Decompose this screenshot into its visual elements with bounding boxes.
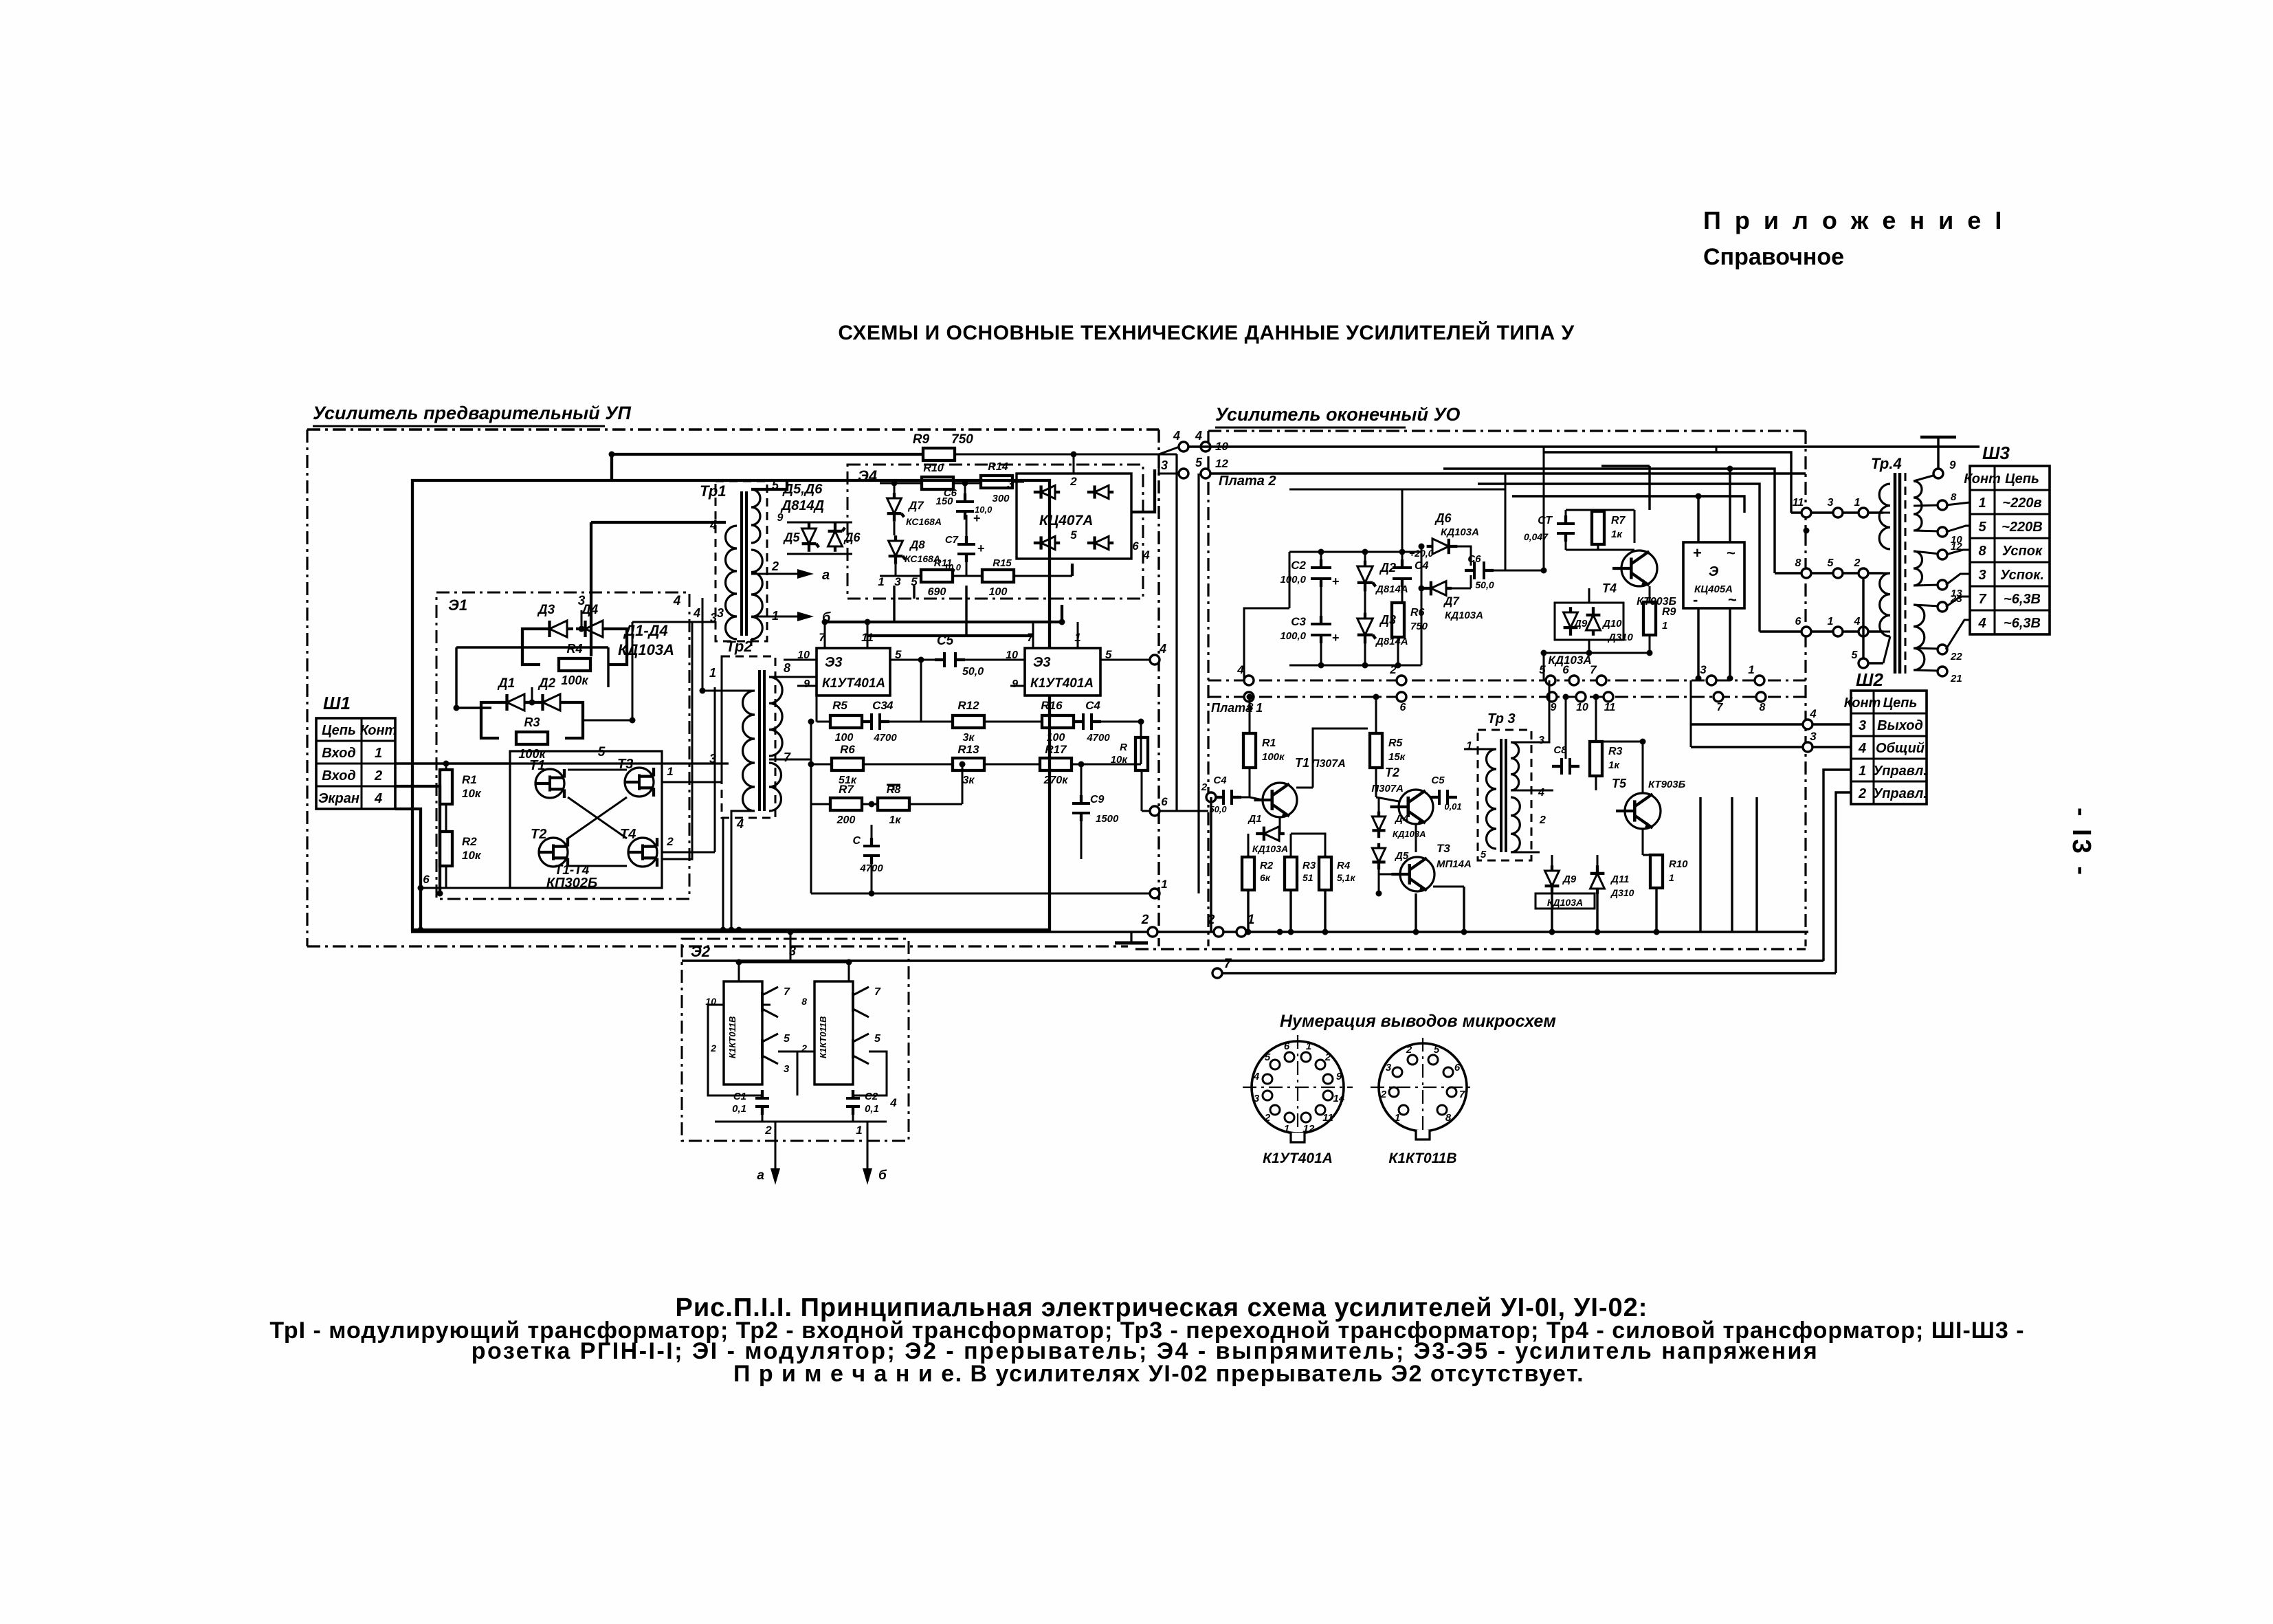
node 2 on bus xyxy=(1148,927,1157,937)
capacitor СТ xyxy=(1557,522,1575,525)
wires СТ R7 xyxy=(1565,510,1567,520)
svg-text:Цепь: Цепь xyxy=(1883,696,1918,711)
transistor T2 xyxy=(539,838,568,867)
svg-text:2: 2 xyxy=(1264,1112,1271,1124)
svg-text:7: 7 xyxy=(1978,592,1986,607)
svg-text:3: 3 xyxy=(1810,730,1817,743)
diode Д5 xyxy=(802,529,817,544)
capacitor C5 xyxy=(943,652,946,667)
svg-text:Д6: Д6 xyxy=(1434,511,1452,525)
svg-text:Д9: Д9 xyxy=(1573,618,1588,630)
svg-text:Э3: Э3 xyxy=(825,655,843,670)
box УП dash-dot outline xyxy=(307,428,1159,430)
capacitor C8 xyxy=(1560,758,1563,775)
wires right cluster xyxy=(1595,697,1597,742)
wire to Тр1 secondary top xyxy=(751,481,787,489)
svg-text:К1УТ401А: К1УТ401А xyxy=(1263,1150,1333,1166)
svg-text:3: 3 xyxy=(1007,478,1014,491)
svg-text:R1: R1 xyxy=(462,773,477,786)
svg-text:2: 2 xyxy=(1858,786,1866,801)
svg-text:2: 2 xyxy=(1380,1089,1387,1100)
IC Э3 left К1УТ401А xyxy=(817,648,890,696)
wires Э2 bottom xyxy=(762,1111,764,1122)
transistor T1 xyxy=(535,769,564,798)
svg-text:5: 5 xyxy=(1265,1052,1271,1063)
svg-text:Плата 1: Плата 1 xyxy=(1211,701,1263,715)
resistor R9 (УО) xyxy=(1643,602,1656,635)
svg-text:7: 7 xyxy=(1717,702,1724,713)
svg-text:1к: 1к xyxy=(1611,529,1623,540)
resistor R18 vertical right xyxy=(1135,737,1148,770)
svg-text:Д4: Д4 xyxy=(580,603,599,617)
svg-text:300: 300 xyxy=(992,493,1010,504)
svg-text:КД103А: КД103А xyxy=(1252,843,1288,854)
svg-text:690: 690 xyxy=(928,586,946,598)
svg-text:4: 4 xyxy=(1173,429,1180,443)
svg-text:Д1: Д1 xyxy=(497,676,515,691)
diode Д1 (Плата1) xyxy=(1264,827,1279,841)
resistor R2 (УП) xyxy=(440,832,452,866)
svg-text:2: 2 xyxy=(1539,814,1546,826)
svg-text:R14: R14 xyxy=(988,461,1008,473)
wire Д1-Д2 frame xyxy=(481,702,499,738)
pinout circle К1УТ401А xyxy=(1252,1041,1344,1133)
node 2b on bus xyxy=(1214,927,1223,937)
wire bus top 12 xyxy=(1210,472,1806,474)
svg-text:5: 5 xyxy=(1070,529,1077,542)
capacitor C4 lower-left xyxy=(1222,790,1225,805)
svg-text:R17: R17 xyxy=(1045,743,1067,756)
svg-text:4: 4 xyxy=(1159,642,1166,656)
svg-text:Нумерация выводов микросхем: Нумерация выводов микросхем xyxy=(1280,1012,1556,1031)
resistor R5 (Плата1) xyxy=(1370,733,1382,768)
rectifier Э КЦ405А xyxy=(1683,542,1744,608)
svg-text:Цепь: Цепь xyxy=(322,723,356,738)
svg-text:~6,3В: ~6,3В xyxy=(2004,592,2041,607)
svg-text:3: 3 xyxy=(1828,497,1834,509)
svg-text:R: R xyxy=(1120,742,1127,753)
svg-text:Э2: Э2 xyxy=(691,943,711,960)
svg-text:Общий: Общий xyxy=(1876,741,1925,756)
transistor T5 xyxy=(1625,793,1661,829)
svg-text:6: 6 xyxy=(1795,616,1801,627)
IC К1КТ011В right xyxy=(814,981,853,1084)
svg-text:3: 3 xyxy=(1538,735,1544,746)
svg-text:СТ: СТ xyxy=(1538,515,1553,526)
wires Тр2 xyxy=(769,676,817,678)
resistor R16 xyxy=(1042,715,1074,728)
svg-text:270к: 270к xyxy=(1043,775,1069,786)
svg-text:R5: R5 xyxy=(1388,737,1404,749)
wire: bus y1424 xyxy=(1217,972,1836,974)
zener Д3 (УО) xyxy=(1357,619,1373,635)
svg-text:К1КТ011В: К1КТ011В xyxy=(727,1016,738,1058)
svg-text:С7: С7 xyxy=(945,534,959,546)
junction dots xyxy=(609,452,615,458)
svg-text:3: 3 xyxy=(784,1063,790,1075)
svg-text:2: 2 xyxy=(1324,1052,1331,1063)
svg-text:Успок.: Успок. xyxy=(2000,568,2044,583)
svg-text:8: 8 xyxy=(1795,557,1801,569)
svg-text:1: 1 xyxy=(1284,1123,1289,1135)
resistor R12 xyxy=(953,715,984,728)
transistor T2 (Плата1) xyxy=(1399,790,1433,824)
svg-text:5: 5 xyxy=(1434,1044,1440,1056)
svg-text:3: 3 xyxy=(1859,718,1866,733)
svg-text:4: 4 xyxy=(1854,616,1861,627)
resistor R10 xyxy=(922,477,953,489)
svg-text:R4: R4 xyxy=(1337,860,1351,871)
svg-text:КД103А: КД103А xyxy=(1393,829,1426,839)
svg-text:100,0: 100,0 xyxy=(1280,630,1306,642)
svg-text:4: 4 xyxy=(673,594,681,608)
svg-text:2: 2 xyxy=(764,1124,772,1137)
svg-text:МП14А: МП14А xyxy=(1437,858,1472,870)
resistor R7 (УО) xyxy=(1592,511,1604,544)
svg-text:1: 1 xyxy=(1748,663,1754,676)
svg-text:Д310: Д310 xyxy=(1610,887,1634,898)
svg-text:C3: C3 xyxy=(1291,615,1306,628)
svg-text:~: ~ xyxy=(1727,544,1736,561)
svg-text:7: 7 xyxy=(1459,1089,1465,1100)
wire elbow B to tap row 2 xyxy=(1443,469,1775,573)
resistor R17 xyxy=(1040,758,1072,770)
svg-text:1500: 1500 xyxy=(1096,813,1119,825)
svg-text:10к: 10к xyxy=(462,787,482,800)
svg-text:R8: R8 xyxy=(887,784,901,796)
svg-text:Цепь: Цепь xyxy=(2005,471,2039,487)
svg-text:КД103А: КД103А xyxy=(1441,526,1479,538)
svg-text:C9: C9 xyxy=(1090,794,1105,805)
resistor R11 xyxy=(921,570,953,582)
svg-text:4: 4 xyxy=(709,518,717,532)
svg-text:1: 1 xyxy=(1859,764,1866,779)
svg-text:9: 9 xyxy=(1949,458,1956,471)
svg-text:10к: 10к xyxy=(462,849,482,862)
svg-text:СХЕМЫ И ОСНОВНЫЕ ТЕХНИЧЕСКИЕ Д: СХЕМЫ И ОСНОВНЫЕ ТЕХНИЧЕСКИЕ ДАННЫЕ УСИЛ… xyxy=(838,321,1574,344)
svg-text:100,0: 100,0 xyxy=(1280,574,1306,586)
svg-text:а: а xyxy=(822,568,830,583)
svg-text:Управл.: Управл. xyxy=(1873,786,1927,801)
svg-text:8: 8 xyxy=(1760,702,1766,713)
svg-text:C3: C3 xyxy=(872,699,887,712)
diodes Д4 Д5 (Плата1) xyxy=(1372,816,1385,830)
svg-text:C2: C2 xyxy=(865,1091,878,1102)
svg-text:Э1: Э1 xyxy=(448,597,467,614)
svg-text:R3: R3 xyxy=(524,715,540,729)
resistor R1 (УП) xyxy=(440,770,452,804)
diode Д2 xyxy=(543,694,561,711)
svg-text:3: 3 xyxy=(1161,458,1168,472)
bottom dash-dot line (УП/УО bottom edge) xyxy=(307,945,1128,947)
svg-text:1: 1 xyxy=(878,575,884,588)
svg-text:Ш3: Ш3 xyxy=(1982,443,2010,463)
wire bundle verticals xyxy=(1716,447,1718,452)
svg-text:50,0: 50,0 xyxy=(1475,579,1494,590)
wire: Ш1 Вход1 to circuit xyxy=(395,762,509,764)
svg-text:100: 100 xyxy=(989,586,1008,598)
svg-text:0,047: 0,047 xyxy=(1524,531,1549,542)
capacitor C3 xyxy=(870,713,873,730)
svg-text:1: 1 xyxy=(1669,872,1674,883)
wires Ш2 down to buses xyxy=(1823,770,1851,961)
node 7 on bus xyxy=(1212,968,1222,978)
rectifier КЦ407А box xyxy=(1017,474,1131,559)
svg-text:R15: R15 xyxy=(993,557,1012,569)
svg-text:3: 3 xyxy=(894,575,901,588)
resistor R5 xyxy=(830,715,862,728)
svg-text:1: 1 xyxy=(375,746,382,761)
wire elbow C to tap row 3 xyxy=(1478,484,1760,632)
svg-text:6к: 6к xyxy=(1260,872,1271,883)
svg-text:100: 100 xyxy=(1047,732,1065,744)
svg-text:C2: C2 xyxy=(1291,559,1306,572)
svg-text:КД103А: КД103А xyxy=(1548,654,1591,667)
svg-text:Ш1: Ш1 xyxy=(323,693,351,713)
resistors R2 R3 R4 (Плата1) xyxy=(1242,857,1254,890)
wire elbow D xyxy=(1512,496,1744,513)
capacitor С7 xyxy=(957,543,975,546)
svg-text:9: 9 xyxy=(1012,678,1018,690)
svg-text:Д1: Д1 xyxy=(1247,813,1261,825)
svg-text:Т2: Т2 xyxy=(1385,766,1399,779)
svg-text:6: 6 xyxy=(1132,540,1139,553)
svg-text:11: 11 xyxy=(1604,702,1616,713)
svg-text:Д11: Д11 xyxy=(1610,874,1629,885)
svg-text:8: 8 xyxy=(1978,544,1986,559)
arrow output b xyxy=(751,616,797,618)
svg-text:0,1: 0,1 xyxy=(865,1103,879,1115)
diode Д3 xyxy=(550,621,568,637)
svg-text:200: 200 xyxy=(836,814,856,826)
svg-text:5: 5 xyxy=(1195,456,1203,469)
svg-text:~: ~ xyxy=(1728,591,1737,608)
wire Д3Д4 node up xyxy=(581,610,583,629)
wire: bus y1400 xyxy=(682,959,1823,961)
svg-text:Д3: Д3 xyxy=(1379,613,1396,627)
capacitor C2 (Э2) xyxy=(846,1097,860,1100)
svg-text:Т2: Т2 xyxy=(531,827,546,842)
svg-text:R4: R4 xyxy=(566,642,582,656)
svg-text:1к: 1к xyxy=(889,814,901,826)
svg-text:4: 4 xyxy=(1253,1071,1260,1082)
wires КЦ407А xyxy=(1017,481,1024,483)
svg-text:Э4: Э4 xyxy=(858,467,877,485)
svg-text:КТ903Б: КТ903Б xyxy=(1648,779,1686,790)
diode Д6 xyxy=(828,531,843,546)
svg-text:R1: R1 xyxy=(1262,737,1276,749)
wire vertical terminal 4 down xyxy=(1175,454,1177,811)
svg-text:Д7: Д7 xyxy=(907,499,924,512)
resistor R3b (Плата1) xyxy=(1590,742,1602,776)
svg-text:Справочное: Справочное xyxy=(1703,244,1844,270)
wires T2 T3 xyxy=(1375,768,1377,797)
svg-text:R2: R2 xyxy=(1260,860,1274,871)
node 6 and wires right side УП xyxy=(1150,806,1160,816)
svg-text:10: 10 xyxy=(1576,702,1588,713)
svg-text:Конт: Конт xyxy=(1964,471,2001,487)
terminal 4-4 top xyxy=(1179,442,1188,452)
svg-text:R16: R16 xyxy=(1041,699,1063,712)
svg-text:9: 9 xyxy=(777,512,784,524)
svg-text:Д4: Д4 xyxy=(1394,813,1409,825)
svg-text:~220В: ~220В xyxy=(2002,520,2043,535)
Тр4 secondary winding 1 xyxy=(1914,481,1922,531)
capacitor C3 (УО) xyxy=(1311,623,1331,625)
wire IC top feeds xyxy=(825,621,1062,623)
svg-text:Д1-Д4: Д1-Д4 xyxy=(623,622,668,639)
transistor T4 xyxy=(628,838,657,867)
svg-text:6: 6 xyxy=(1161,795,1168,808)
svg-text:R11: R11 xyxy=(934,557,952,569)
resistor R15 xyxy=(982,570,1014,582)
svg-text:+: + xyxy=(1332,575,1340,588)
svg-text:4: 4 xyxy=(1858,741,1866,756)
wires Э rectifier xyxy=(1697,496,1699,542)
wire: bus y1356 xyxy=(411,931,1808,933)
svg-text:3к: 3к xyxy=(962,732,975,744)
svg-text:КЦ405А: КЦ405А xyxy=(1694,583,1733,595)
wire vertical from top bus to Д6 xyxy=(1505,474,1507,489)
Тр4 secondary winding 3 xyxy=(1914,605,1925,670)
svg-text:3к: 3к xyxy=(962,775,975,786)
svg-text:-: - xyxy=(1693,591,1698,608)
svg-text:Тр1: Тр1 xyxy=(700,482,727,500)
svg-text:К1КТ011В: К1КТ011В xyxy=(818,1016,828,1058)
capacitor C4 (УО) xyxy=(1393,566,1412,569)
box Э4 dash-dot xyxy=(847,465,1143,599)
svg-text:C4: C4 xyxy=(1085,699,1100,712)
svg-text:C5: C5 xyxy=(1431,775,1445,786)
svg-text:10,0: 10,0 xyxy=(975,504,993,515)
svg-text:К1УТ401А: К1УТ401А xyxy=(822,676,885,691)
svg-text:R7: R7 xyxy=(1611,515,1626,526)
zener Д7 xyxy=(887,498,902,513)
capacitor С6 xyxy=(956,500,974,503)
svg-text:КД103А: КД103А xyxy=(618,641,674,658)
svg-text:8: 8 xyxy=(1951,491,1957,503)
dash-dot Плата1 top xyxy=(1208,696,1806,698)
svg-text:750: 750 xyxy=(1410,621,1428,632)
resistor R7b xyxy=(830,798,862,810)
svg-text:C4: C4 xyxy=(1213,775,1227,786)
svg-text:КС168А: КС168А xyxy=(906,516,942,527)
svg-text:C: C xyxy=(852,835,861,847)
svg-text:Экран: Экран xyxy=(318,791,359,806)
svg-text:R5: R5 xyxy=(832,699,847,712)
svg-text:4: 4 xyxy=(1977,616,1986,631)
wires Тр4 primary taps xyxy=(1791,511,1883,513)
capacitor C6 (УО) xyxy=(1473,561,1476,579)
svg-text:8: 8 xyxy=(801,996,807,1007)
svg-text:5: 5 xyxy=(1481,849,1487,860)
svg-text:21: 21 xyxy=(1950,673,1962,685)
svg-text:6: 6 xyxy=(1284,1041,1290,1052)
svg-text:0,1: 0,1 xyxy=(732,1103,746,1115)
wires upper Плата2 horizontals xyxy=(1289,489,1402,491)
svg-text:Д10: Д10 xyxy=(1601,618,1622,630)
wire Д5Д6 xyxy=(787,522,852,524)
svg-text:11: 11 xyxy=(1322,1112,1333,1124)
zener Д2 (УО) xyxy=(1357,566,1373,583)
svg-text:1: 1 xyxy=(1828,616,1834,627)
svg-text:2: 2 xyxy=(771,559,779,573)
svg-text:R6: R6 xyxy=(840,743,855,756)
Тр4 secondary winding 2 xyxy=(1914,551,1922,586)
svg-text:2: 2 xyxy=(374,768,382,783)
svg-text:1: 1 xyxy=(856,1124,862,1137)
svg-text:5: 5 xyxy=(911,575,918,588)
wire Д3-Д4 frame xyxy=(522,629,540,665)
wires Тр3 xyxy=(1464,748,1496,750)
svg-text:R10: R10 xyxy=(1669,858,1688,870)
svg-text:R2: R2 xyxy=(462,835,477,848)
arrow a bottom xyxy=(775,1122,777,1168)
svg-text:5: 5 xyxy=(1852,649,1859,661)
wires Э4 bottom verticals xyxy=(893,586,895,622)
wire vert from Д1Д2 node xyxy=(531,687,533,702)
svg-text:Э3: Э3 xyxy=(1033,655,1051,670)
nested corner wires xyxy=(1699,797,1701,932)
svg-text:КД103А: КД103А xyxy=(1445,610,1483,621)
svg-text:R10: R10 xyxy=(923,463,943,474)
svg-text:4: 4 xyxy=(1809,707,1817,720)
svg-text:R13: R13 xyxy=(957,743,979,756)
zener Д8 xyxy=(889,541,903,556)
svg-text:Т1: Т1 xyxy=(529,758,545,773)
svg-text:51: 51 xyxy=(1302,872,1313,883)
capacitor C9 xyxy=(1072,802,1090,805)
transistor T1 (Плата1) xyxy=(1263,783,1297,817)
svg-text:4: 4 xyxy=(1195,429,1202,443)
capacitor C4 xyxy=(1082,713,1085,730)
wire crossover xyxy=(568,797,627,838)
svg-text:8: 8 xyxy=(784,661,790,675)
svg-text:+: + xyxy=(977,542,985,555)
svg-text:11: 11 xyxy=(1793,497,1804,509)
svg-text:Т5: Т5 xyxy=(1612,777,1627,790)
svg-text:7: 7 xyxy=(1224,957,1232,971)
resistor R3 xyxy=(516,732,548,744)
wires Э1 right side verticals xyxy=(662,622,692,859)
svg-text:2: 2 xyxy=(1141,913,1149,927)
svg-text:1: 1 xyxy=(1306,1041,1311,1052)
wires Э4 xyxy=(894,483,896,498)
svg-text:Тр.4: Тр.4 xyxy=(1871,455,1902,472)
svg-text:4: 4 xyxy=(1142,548,1150,561)
svg-text:Вход: Вход xyxy=(322,768,355,783)
svg-text:100к: 100к xyxy=(1262,751,1285,763)
terminal 3-5 row xyxy=(1179,469,1188,478)
node 4 right xyxy=(1150,655,1160,665)
svg-text:4: 4 xyxy=(693,606,700,620)
svg-text:Т1: Т1 xyxy=(1295,756,1309,770)
svg-text:+: + xyxy=(1693,544,1702,561)
svg-text:4: 4 xyxy=(1538,787,1544,799)
svg-text:Усилитель оконечный УО: Усилитель оконечный УО xyxy=(1215,404,1460,425)
svg-text:Тр 3: Тр 3 xyxy=(1487,711,1516,726)
wires to Ш2 xyxy=(1691,723,1851,725)
wire vertical terminal 5 down xyxy=(1197,474,1199,893)
arrow b bottom xyxy=(867,1122,869,1168)
svg-text:5: 5 xyxy=(1978,520,1986,535)
resistor R10b xyxy=(1650,855,1663,888)
svg-text:Ш2: Ш2 xyxy=(1856,669,1883,690)
resistor R6 (УО) xyxy=(1392,603,1404,637)
svg-text:2: 2 xyxy=(1406,1044,1412,1056)
svg-text:5: 5 xyxy=(784,1033,790,1045)
svg-text:R7: R7 xyxy=(839,783,854,796)
